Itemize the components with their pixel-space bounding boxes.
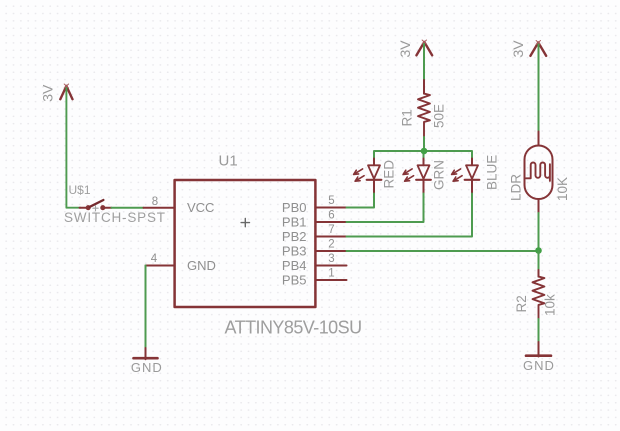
svg-text:PB2: PB2 <box>282 229 307 244</box>
label GRN <box>432 160 447 190</box>
pin number 2 <box>328 239 334 251</box>
label R2 <box>514 295 529 312</box>
wire LED anode rail <box>374 151 472 159</box>
svg-text:7: 7 <box>328 224 334 236</box>
svg-text:GND: GND <box>131 360 163 375</box>
svg-text:6: 6 <box>328 210 334 222</box>
label R1 <box>400 109 415 126</box>
pin 4 stub (GND) <box>146 265 175 267</box>
svg-text:PB4: PB4 <box>282 258 307 273</box>
label 10k <box>543 294 558 316</box>
label 10K <box>555 177 570 201</box>
svg-text:1: 1 <box>328 268 334 280</box>
LED GRN (D2) <box>403 159 431 194</box>
svg-text:R1: R1 <box>400 109 415 126</box>
svg-text:BLUE: BLUE <box>485 155 500 190</box>
label GND (right) <box>523 358 555 373</box>
svg-text:PB0: PB0 <box>282 200 307 215</box>
svg-text:U1: U1 <box>219 152 238 169</box>
pin PB5 name <box>282 273 307 288</box>
ground GND (left) <box>134 348 158 359</box>
svg-text:RED: RED <box>382 160 397 189</box>
pin VCC name <box>187 200 214 215</box>
svg-text:PB1: PB1 <box>282 215 307 230</box>
label 50E <box>431 104 446 128</box>
wire LED GRN to PB1 <box>347 194 424 223</box>
svg-text:3: 3 <box>328 253 334 265</box>
svg-text:PB5: PB5 <box>282 273 307 288</box>
wire 3V to LDR <box>538 45 540 132</box>
pin number 8 <box>152 196 158 208</box>
svg-text:PB3: PB3 <box>282 244 307 259</box>
wire R1 to rail <box>423 137 425 151</box>
pin 6 stub (PB1) <box>315 221 346 223</box>
switch U$1 SWITCH-SPST <box>80 200 112 211</box>
supply 3V at R1 <box>416 40 432 55</box>
svg-text:GND: GND <box>523 358 555 373</box>
svg-text:VCC: VCC <box>187 200 214 215</box>
svg-text:3V: 3V <box>510 40 526 58</box>
pin number 6 <box>328 210 334 222</box>
svg-text:4: 4 <box>151 253 158 265</box>
svg-text:LDR: LDR <box>509 174 524 201</box>
pin PB1 name <box>282 215 307 230</box>
wire LED BLUE to PB2 <box>347 194 473 237</box>
wire 3V to switch <box>66 88 80 208</box>
label U$1 <box>69 183 91 197</box>
svg-text:2: 2 <box>328 239 334 251</box>
pin PB4 name <box>282 258 307 273</box>
junction rail/R1 <box>421 148 428 155</box>
label BLUE <box>485 155 500 190</box>
supply 3V left <box>60 84 72 99</box>
svg-text:5: 5 <box>328 195 334 207</box>
pin 5 stub (PB0) <box>315 207 346 209</box>
label SWITCH-SPST <box>64 210 166 225</box>
label RED <box>382 160 397 189</box>
pin 2 stub (PB3) <box>315 250 346 252</box>
pin PB2 name <box>282 229 307 244</box>
pin 7 stub (PB2) <box>315 236 346 238</box>
pin 3 stub (PB4) <box>315 265 346 267</box>
svg-text:SWITCH-SPST: SWITCH-SPST <box>64 210 166 225</box>
junction LDR/R2/PB3 <box>535 247 542 254</box>
LED RED (D1) <box>354 159 382 194</box>
photoresistor LDR <box>525 132 553 214</box>
pin number 7 <box>328 224 334 236</box>
resistor R2 <box>533 251 545 342</box>
label U1 <box>219 152 238 169</box>
svg-text:3V: 3V <box>39 84 55 102</box>
pin GND name <box>187 258 216 273</box>
wire pin4 to ground <box>145 266 147 349</box>
svg-text:GND: GND <box>187 258 216 273</box>
label ATTINY85V-10SU <box>225 318 362 338</box>
svg-text:10k: 10k <box>543 294 558 316</box>
LED BLUE (D3) <box>452 159 480 194</box>
wire PB3 to LDR/R2 junction <box>347 250 539 252</box>
svg-text:50E: 50E <box>431 104 446 128</box>
pin 8 stub (VCC) <box>144 207 175 209</box>
label 3V (LDR supply) <box>510 40 526 58</box>
IC origin cross <box>241 218 249 226</box>
wire LED RED to PB0 <box>347 194 375 208</box>
wire switch to pin 8 <box>112 207 144 209</box>
pin number 5 <box>328 195 334 207</box>
pin PB3 name <box>282 244 307 259</box>
resistor R1 <box>418 80 430 137</box>
svg-text:GRN: GRN <box>432 160 447 190</box>
label GND (left) <box>131 360 163 375</box>
svg-text:8: 8 <box>152 196 158 208</box>
svg-text:U$1: U$1 <box>69 183 91 197</box>
pin number 4 <box>151 253 158 265</box>
svg-text:3V: 3V <box>397 40 413 58</box>
op-amp U1 box (IC ATTINY85V-10SU) <box>175 180 316 307</box>
supply 3V at LDR <box>530 41 546 56</box>
pin PB0 name <box>282 200 307 215</box>
pin number 1 <box>328 268 334 280</box>
pin 1 stub (PB5) <box>315 279 346 281</box>
svg-text:10K: 10K <box>555 177 570 201</box>
ground GND (right) <box>526 342 551 357</box>
label 3V (left supply) <box>39 84 55 102</box>
pin number 3 <box>328 253 334 265</box>
wire 3V to R1 <box>423 44 425 80</box>
svg-text:R2: R2 <box>514 295 529 312</box>
label LDR <box>509 174 524 201</box>
label 3V (R1 supply) <box>397 40 413 58</box>
wire LDR to junction <box>538 213 540 251</box>
svg-text:ATTINY85V-10SU: ATTINY85V-10SU <box>225 318 362 338</box>
